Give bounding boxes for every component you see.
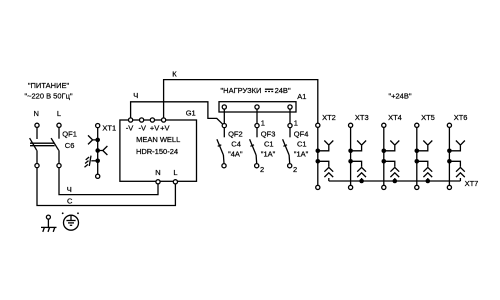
svg-text:L: L	[57, 109, 61, 118]
svg-text:QF4: QF4	[294, 129, 309, 138]
wire Ч (QF1 to G1 N)	[59, 168, 158, 195]
svg-text:"НАГРУЗКИ: "НАГРУЗКИ	[221, 86, 262, 95]
terminal XT4	[382, 113, 402, 190]
bus wire XT7	[329, 180, 461, 182]
wire К (G1 +V to XT2)	[164, 69, 318, 123]
svg-text:A1: A1	[297, 92, 306, 101]
svg-text:XT5: XT5	[421, 113, 435, 122]
svg-text:"4A": "4A"	[228, 149, 243, 158]
terminal XT2	[316, 113, 336, 190]
terminal XT5	[415, 113, 435, 190]
svg-text:XT1: XT1	[102, 124, 116, 133]
svg-text:MEAN WELL: MEAN WELL	[136, 135, 180, 144]
svg-text:"1A": "1A"	[294, 149, 309, 158]
junction (XT3 jumper)	[359, 179, 364, 184]
svg-text:Ч: Ч	[67, 185, 72, 194]
protective earth symbol	[62, 212, 79, 230]
svg-text:C1: C1	[297, 140, 307, 149]
circuit breaker QF1 C6 (2-pole)	[30, 127, 77, 167]
junction (XT4 jumper)	[393, 179, 398, 184]
svg-text:C4: C4	[231, 140, 241, 149]
svg-text:C6: C6	[65, 141, 75, 150]
svg-text:HDR-150-24: HDR-150-24	[136, 147, 178, 156]
svg-text:XT3: XT3	[355, 113, 369, 122]
svg-text:N: N	[33, 109, 38, 118]
ground (chassis terminal)	[41, 215, 57, 232]
svg-text:QF2: QF2	[228, 129, 243, 138]
svg-text:QF1: QF1	[62, 129, 77, 138]
wire Ч (G1 -V to QF2)	[131, 91, 223, 124]
svg-text:1: 1	[294, 118, 298, 127]
svg-text:"ПИТАНИЕ": "ПИТАНИЕ"	[28, 81, 70, 90]
connector A1 НАГРУЗКИ 24В	[219, 86, 306, 112]
svg-text:+V: +V	[160, 124, 169, 133]
terminal XT6	[447, 113, 467, 190]
svg-text:"1A": "1A"	[261, 149, 276, 158]
terminal L	[57, 109, 61, 127]
svg-text:1: 1	[261, 118, 265, 127]
svg-text:"+24В": "+24В"	[388, 92, 411, 101]
svg-text:+V: +V	[150, 124, 159, 133]
circuit breaker QF3 C1	[250, 109, 276, 174]
svg-text:XT2: XT2	[322, 113, 336, 122]
terminal strip XT1	[85, 124, 117, 179]
terminal XT3	[348, 113, 368, 190]
svg-text:"~220 В 50Гц": "~220 В 50Гц"	[24, 92, 72, 101]
svg-text:XT4: XT4	[388, 113, 402, 122]
svg-text:N: N	[155, 168, 160, 177]
circuit breaker QF2 C4	[217, 109, 243, 168]
circuit breaker QF4 C1	[283, 109, 309, 174]
svg-text:К: К	[172, 69, 177, 78]
power supply G1 MEAN WELL HDR-150-24	[120, 108, 197, 183]
svg-text:Ч: Ч	[133, 91, 138, 100]
svg-text:XT7: XT7	[465, 179, 479, 188]
terminal N	[33, 109, 39, 127]
svg-text:C1: C1	[264, 140, 274, 149]
wire С (QF1 to G1 L)	[37, 168, 175, 206]
svg-text:QF3: QF3	[261, 129, 276, 138]
svg-text:XT6: XT6	[454, 113, 468, 122]
svg-text:G1: G1	[186, 108, 196, 117]
svg-text:24В": 24В"	[275, 86, 291, 95]
svg-text:С: С	[67, 196, 73, 205]
svg-text:2: 2	[293, 165, 297, 174]
svg-text:L: L	[173, 168, 177, 177]
svg-text:-V: -V	[126, 124, 134, 133]
junction (XT5 jumper)	[426, 179, 431, 184]
svg-text:2: 2	[260, 165, 264, 174]
svg-text:-V: -V	[139, 124, 147, 133]
